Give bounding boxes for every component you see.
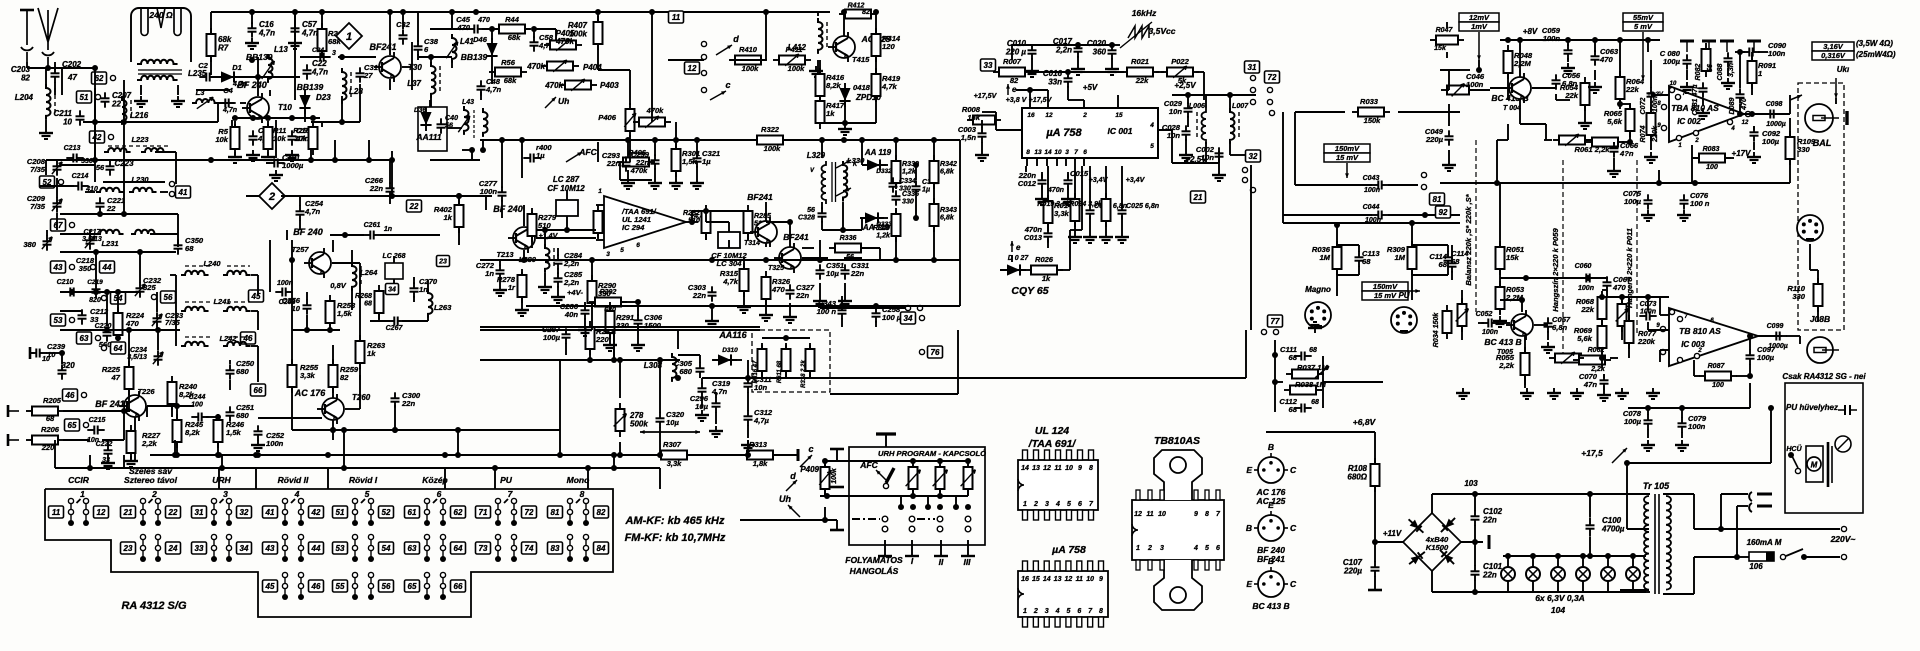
pin 2 [1083,100,1085,108]
wire [761,371,763,378]
svg-text:120: 120 [882,42,895,51]
inductor L006 [1202,108,1207,144]
svg-text:3,3k: 3,3k [667,459,682,468]
wire [1647,40,1649,52]
junction [625,137,631,143]
junction [115,289,121,295]
svg-text:41: 41 [178,188,188,197]
svg-text:10: 10 [63,118,72,127]
svg-text:1mV: 1mV [1471,22,1488,31]
junction [469,147,475,153]
svg-text:IC 001: IC 001 [1107,126,1132,136]
wire [1619,99,1621,109]
junction [400,9,406,15]
T bar low [830,529,844,532]
svg-text:BF 240: BF 240 [293,227,323,237]
wire [229,380,231,390]
wire [701,397,703,408]
wire [220,499,224,503]
svg-text:100n: 100n [1364,187,1380,194]
svg-text:24: 24 [168,544,178,553]
terminal box 34 [901,312,916,324]
bus [1295,111,1345,113]
wire [1751,52,1753,61]
junction [121,408,127,414]
terminal box 61 [405,506,420,518]
capacitor C343 [841,304,843,310]
svg-text:10n: 10n [1167,131,1180,140]
svg-text:3: 3 [1160,545,1164,552]
svg-text:2: 2 [1694,138,1699,144]
wire [103,181,165,183]
wire [1478,322,1484,324]
capacitor C113 [1358,251,1360,257]
junction [455,452,461,458]
resistor P404 [541,65,547,67]
svg-text:T260: T260 [352,393,371,402]
capacitor C010 [1031,44,1033,50]
tuning indicator 1 [336,23,362,49]
svg-text:BF241: BF241 [783,232,809,242]
wire bus [292,429,430,431]
wire [227,336,250,338]
svg-text:L242: L242 [219,334,237,343]
capacitor C056 [1555,74,1557,80]
resistor R258 [329,295,331,301]
svg-text:47n: 47n [1583,380,1597,389]
capacitor C57 [294,22,296,28]
wire [321,122,323,127]
svg-text:56: 56 [164,293,173,302]
svg-text:56: 56 [445,122,453,130]
wire [820,307,905,309]
transistor T260 [322,398,344,420]
wire [430,28,470,30]
flywheel [1827,442,1830,487]
switch contact col 11 [70,500,72,524]
wire [933,183,935,204]
wire [841,318,843,327]
svg-text:K1500: K1500 [1426,543,1449,552]
wire [343,430,345,468]
wire [1781,113,1790,115]
wire [341,57,343,60]
wire [1659,297,1661,315]
stub bar [961,555,975,557]
wire [117,292,119,312]
junction [611,452,617,458]
svg-text:470: 470 [456,23,470,32]
wire [1074,221,1076,232]
svg-text:46: 46 [311,582,321,591]
inductor [129,188,157,192]
ground [251,38,253,43]
wire [1158,129,1172,131]
junction [873,9,879,15]
pin 16 [1029,100,1031,108]
svg-text:C044: C044 [1363,204,1380,211]
pot arrow [262,61,275,79]
svg-text:+3,4V: +3,4V [1126,176,1146,184]
svg-text:470n: 470n [1047,186,1065,194]
junction [787,219,793,225]
capacitor C025 [1121,204,1123,210]
wire [566,222,568,230]
lamp [1526,567,1540,581]
svg-text:3,5Vcc: 3,5Vcc [1149,26,1176,36]
terminal [1250,87,1255,92]
svg-text:4,7k: 4,7k [881,82,898,91]
junction [910,504,916,510]
wire [177,214,179,247]
resistor R008 [967,119,973,121]
capacitor C253 [275,291,282,293]
ground [1652,388,1654,393]
ground [1727,78,1729,83]
svg-text:34: 34 [388,287,396,294]
ground [1553,388,1555,393]
pot arrow [556,39,570,51]
svg-text:22: 22 [106,204,116,213]
cap top bus [1032,44,1112,46]
junction [1679,405,1685,411]
bus [130,159,290,161]
wire [1028,71,1050,73]
switch contact col 45 [284,574,286,598]
wire [1647,322,1649,330]
wire [1474,542,1476,566]
terminal box 53 [333,542,348,554]
wire [841,296,843,306]
svg-text:4: 4 [1149,122,1154,129]
pin 12 [1047,100,1049,108]
junction [327,327,333,333]
junction [1185,92,1191,98]
wire [559,430,561,455]
loop antenna 240 ohm [131,8,191,52]
svg-text:L43: L43 [462,99,474,106]
svg-text:2: 2 [1082,112,1087,119]
inductor [843,161,847,202]
wire y196 [390,195,486,197]
svg-text:B: B [1268,556,1274,566]
wire [1412,274,1448,276]
wire [1474,525,1476,542]
capacitor C209 [56,197,58,203]
ground [715,426,717,431]
svg-text:11: 11 [1146,511,1153,518]
wire [765,299,767,310]
svg-text:L240: L240 [203,259,221,268]
resistor balpot [1461,298,1463,304]
wire [728,222,730,232]
svg-text:12: 12 [1742,120,1749,126]
supply rail [1720,40,1734,43]
junction [1272,379,1278,385]
svg-text:R021: R021 [1131,57,1149,66]
wire [842,202,844,230]
resistor R205 [26,410,32,412]
wire [1587,277,1589,279]
wire [417,54,419,60]
resistor R087 [1699,375,1705,377]
wire [1497,139,1508,141]
wire [160,191,168,193]
wire [1520,123,1546,125]
terminal [1250,75,1255,80]
wire [1817,270,1819,284]
svg-text:+17,5V: +17,5V [1029,96,1053,104]
wire [185,301,210,303]
wire [967,489,969,496]
wire [875,96,877,123]
wire [576,499,580,503]
wire [1786,335,1800,337]
vertical x958 [957,330,959,394]
svg-text:C052: C052 [1476,311,1493,318]
capacitor C044 [1371,214,1378,216]
svg-text:83: 83 [551,544,560,553]
terminal bar C239 [29,347,32,359]
wire [1470,89,1490,91]
svg-text:470: 470 [1740,98,1748,111]
terminal [151,294,156,299]
wire [1031,45,1033,46]
capacitor C328 [821,207,823,213]
switch contact col 24 [157,536,159,560]
wire [862,164,866,166]
svg-text:43: 43 [265,544,275,553]
svg-text:C2: C2 [198,61,208,70]
wire [1069,230,1071,270]
svg-text:15k: 15k [967,113,980,122]
wire [27,67,70,69]
resistor P403 [559,84,565,86]
vertical x1251 [1250,165,1252,330]
wire [597,233,599,238]
svg-text:C244: C244 [189,394,206,401]
pot arrow [446,42,457,58]
svg-text:100µ: 100µ [1624,417,1642,426]
wire [533,29,535,38]
wire [430,57,432,62]
resistor R064 [1619,71,1621,77]
svg-text:Rövid II: Rövid II [278,475,309,485]
svg-text:1,2k: 1,2k [876,232,891,240]
wire [1737,505,1748,507]
wire [1817,306,1819,322]
wire [275,155,277,158]
wire [627,170,629,178]
capacitor C351 [819,264,821,270]
wire [1607,556,1609,567]
ground [627,178,629,183]
transformer secondary [1666,496,1671,590]
wire [534,28,556,30]
wire [557,286,559,292]
svg-text:HANGOLÁS: HANGOLÁS [850,566,899,576]
resistor P405 [544,44,550,46]
wire [802,247,814,249]
ground [1603,390,1605,395]
junction [59,350,65,356]
terminal bar [7,434,10,446]
wire [747,392,749,411]
wire [1739,104,1741,114]
wire [1205,95,1207,108]
wire [504,499,508,503]
resistor R061 [1586,141,1592,143]
junction [121,119,127,125]
wire [321,12,323,29]
wire [1374,432,1376,464]
wire [765,243,767,247]
wire [60,233,97,235]
junction [1523,275,1529,281]
wire [217,417,219,420]
capacitor C114b [1451,257,1453,263]
terminal [95,94,100,99]
T bar above box [876,432,896,435]
svg-text:330: 330 [902,198,914,206]
capacitor C052 [1481,322,1488,324]
capacitor C099 [1769,335,1776,337]
svg-text:BF241: BF241 [747,192,773,202]
svg-text:AM-KF: kb 465 kHz: AM-KF: kb 465 kHz [624,515,725,527]
wire [1218,161,1220,170]
svg-text:470k: 470k [526,62,545,71]
terminal box 67 [51,219,66,231]
capacitor C267 [387,320,394,322]
svg-text:82: 82 [21,74,30,83]
svg-text:11: 11 [1076,576,1083,583]
svg-text:22: 22 [111,100,121,109]
program pot 1 [912,461,914,467]
level box 150mV 2 [1362,282,1408,291]
wire [390,11,418,13]
wire [1171,130,1173,163]
+8V bus [1500,39,1640,41]
resistor R021 [1121,71,1127,73]
wire [176,406,178,420]
svg-text:R087: R087 [1708,363,1726,370]
svg-text:P406: P406 [598,113,617,122]
wire [214,102,234,104]
svg-text:72: 72 [1268,73,1277,82]
terminal [83,422,88,427]
wire [451,60,453,68]
svg-text:L13: L13 [274,45,288,54]
wire [1629,131,1631,142]
capacitor C220 [106,326,108,332]
capacitor C38 [417,40,419,46]
wire [177,85,179,95]
capacitor C076 [1683,194,1685,200]
URH program box [849,447,985,545]
svg-text:3: 3 [332,50,336,57]
svg-text:L412: L412 [788,43,807,52]
svg-text:68k: 68k [504,76,517,85]
wire [176,442,178,455]
svg-text:15 mV: 15 mV [1336,153,1359,162]
wire [471,150,473,160]
svg-text:+3,8 V: +3,8 V [1006,96,1028,104]
junction [308,157,314,163]
svg-text:150mV: 150mV [1373,282,1398,291]
resistor R410 [729,59,735,61]
wire [817,60,819,74]
svg-text:68: 68 [1439,260,1448,269]
diode D310 [713,354,737,365]
junction [155,327,161,333]
wire [1589,537,1591,556]
capacitor C066 [1613,142,1615,148]
wire [1632,556,1634,567]
wire [1613,158,1615,166]
junction [937,458,943,464]
capacitor C334 [892,177,894,183]
wire [1749,364,1751,376]
wire [785,371,787,378]
switch contact col 54 [370,536,372,560]
ground [701,410,703,415]
wire [523,250,525,260]
wire [332,240,334,252]
resistor R336 [829,247,835,249]
terminal [1261,329,1266,334]
ground [499,285,501,290]
op-amp TB810AS IC003 [1669,308,1758,366]
junction [1409,220,1415,226]
svg-text:R7: R7 [218,44,229,53]
wire [1412,244,1448,246]
ground [1074,232,1076,237]
wire [1770,418,1772,463]
svg-text:C043: C043 [1363,175,1380,182]
svg-text:L204: L204 [15,93,34,102]
terminal box 23 [437,256,450,267]
svg-text:100µ: 100µ [543,333,561,342]
capacitor C254 [299,205,301,211]
junction [1656,180,1662,186]
capacitor C233 [156,312,158,318]
svg-text:4,7k: 4,7k [722,277,739,286]
junction [587,357,593,363]
svg-text:L006: L006 [1189,102,1205,110]
svg-text:21: 21 [1193,193,1203,202]
wire [157,330,159,350]
wire [699,377,701,378]
wire [128,390,130,411]
junction [1619,294,1625,300]
wire [637,302,639,316]
wire [1532,581,1534,592]
wire [1500,299,1522,301]
wire [227,265,250,267]
svg-text:34: 34 [240,544,249,553]
junction [253,452,259,458]
junction [611,357,617,363]
junction [657,452,663,458]
wire [341,96,343,122]
audio bus [1440,182,1790,184]
wire [895,210,897,214]
wire [1693,360,1695,376]
wire [485,196,487,210]
svg-text:81: 81 [1433,195,1442,204]
ground [1683,210,1685,215]
svg-text:5: 5 [1150,143,1154,150]
